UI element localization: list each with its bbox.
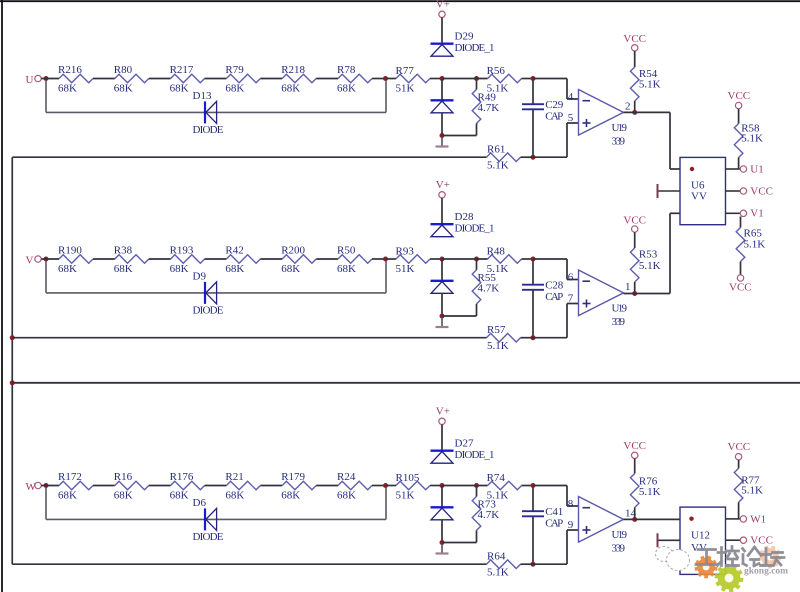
resistor R61 — [487, 153, 521, 162]
wire — [41, 258, 59, 260]
svg-text:R80: R80 — [114, 64, 133, 76]
IC U12 — [680, 507, 726, 574]
watermark red-orange scribble — [759, 546, 782, 569]
svg-text:68K: 68K — [170, 489, 189, 501]
svg-text:4.7K: 4.7K — [478, 102, 500, 114]
svg-text:V1: V1 — [750, 208, 763, 220]
U6 pin V1 — [726, 212, 741, 214]
wire long horizontal net — [12, 382, 800, 384]
svg-text:VCC: VCC — [729, 282, 752, 294]
resistor R21 — [226, 481, 260, 490]
svg-text:5: 5 — [568, 112, 574, 124]
svg-text:68K: 68K — [114, 82, 133, 94]
terminal V+ — [439, 192, 445, 198]
svg-text:R176: R176 — [170, 471, 194, 483]
svg-text:R218: R218 — [281, 64, 305, 76]
wire — [93, 258, 115, 260]
U6 left-middle pin with bar symbol — [658, 190, 681, 192]
svg-text:4.7K: 4.7K — [478, 282, 500, 294]
wire — [385, 261, 387, 293]
op-amp minus symbol — [583, 507, 591, 509]
wire — [566, 79, 568, 100]
wire — [430, 78, 442, 80]
wire — [442, 542, 477, 544]
svg-text:R78: R78 — [337, 64, 356, 76]
svg-text:DIODE: DIODE — [193, 305, 224, 317]
wire — [441, 294, 443, 317]
ground — [436, 136, 449, 147]
svg-text:5.1K: 5.1K — [487, 159, 509, 171]
svg-text:68K: 68K — [225, 82, 244, 94]
svg-text:VCC: VCC — [623, 33, 646, 45]
svg-text:51K: 51K — [396, 263, 415, 275]
U12 pin-1 marker dot — [689, 517, 693, 521]
svg-text:U19: U19 — [612, 122, 628, 134]
wire — [669, 112, 671, 169]
svg-text:U19: U19 — [612, 529, 628, 541]
terminal VCC — [737, 275, 743, 281]
resistor R55 — [472, 270, 481, 304]
U6 pin-1 marker dot — [690, 167, 694, 171]
svg-text:68K: 68K — [170, 82, 189, 94]
svg-text:5.1K: 5.1K — [741, 132, 763, 144]
wire — [533, 485, 567, 487]
wire — [476, 261, 478, 270]
resistor R16 — [115, 481, 149, 490]
diode D28 — [431, 224, 454, 237]
wire — [532, 109, 534, 157]
svg-text:5.1K: 5.1K — [487, 566, 509, 578]
svg-text:VCC: VCC — [750, 185, 773, 197]
terminal V+ — [439, 418, 445, 424]
wire — [476, 488, 478, 497]
svg-text:D27: D27 — [455, 437, 474, 449]
resistor R24 — [338, 481, 372, 490]
svg-text:R42: R42 — [225, 245, 243, 257]
resistor R217 — [171, 74, 205, 83]
svg-text:U1: U1 — [750, 163, 763, 175]
resistor R57 — [487, 333, 521, 342]
terminal VCC — [740, 188, 746, 194]
wire — [566, 486, 568, 507]
node B — [474, 483, 479, 488]
wire — [738, 109, 740, 124]
wire — [567, 122, 579, 124]
resistor R80 — [115, 74, 149, 83]
wire — [430, 485, 442, 487]
resistor R105 — [396, 481, 430, 490]
wire — [624, 293, 671, 295]
wire — [532, 290, 534, 338]
wire — [533, 156, 567, 158]
svg-text:R193: R193 — [170, 245, 194, 257]
svg-text:D6: D6 — [193, 497, 207, 509]
wire — [430, 258, 442, 260]
diode D9 — [205, 282, 217, 304]
svg-text:gkong.com: gkong.com — [744, 567, 788, 577]
wire — [385, 81, 387, 113]
svg-text:5.1K: 5.1K — [487, 82, 509, 94]
wire — [634, 508, 636, 520]
wire — [386, 258, 397, 260]
svg-text:R74: R74 — [487, 472, 506, 484]
wire — [385, 488, 387, 520]
svg-text:R105: R105 — [396, 472, 420, 484]
wire — [316, 78, 338, 80]
wire — [12, 337, 486, 339]
wire — [12, 563, 486, 565]
wire — [634, 51, 636, 67]
resistor R176 — [171, 481, 205, 490]
terminal W1 — [740, 516, 746, 522]
ground — [436, 316, 449, 327]
svg-text:D13: D13 — [193, 90, 212, 102]
node C bottom — [531, 155, 536, 160]
resistor R190 — [59, 255, 93, 264]
diode D29 lower — [431, 100, 454, 113]
svg-text:4.7K: 4.7K — [478, 509, 500, 521]
wire — [372, 78, 386, 80]
wire — [566, 530, 568, 564]
svg-text:U: U — [26, 74, 34, 86]
svg-text:339: 339 — [612, 136, 626, 148]
svg-text:R190: R190 — [58, 245, 82, 257]
terminal VCC — [740, 537, 746, 543]
wire — [41, 485, 59, 487]
svg-text:R48: R48 — [487, 245, 506, 257]
svg-text:VCC: VCC — [728, 90, 751, 102]
IC U6 — [680, 157, 726, 224]
node chain end — [383, 257, 388, 262]
wire — [567, 505, 579, 507]
svg-text:68K: 68K — [114, 263, 133, 275]
svg-text:6: 6 — [568, 271, 574, 283]
node A — [440, 76, 445, 81]
resistor R93 — [396, 255, 430, 264]
svg-text:R53: R53 — [639, 249, 658, 261]
resistor R216 — [59, 74, 93, 83]
svg-text:R217: R217 — [170, 64, 194, 76]
wire — [260, 258, 282, 260]
watermark logo group — [656, 546, 789, 592]
wire — [386, 78, 397, 80]
resistor R48 — [488, 255, 522, 264]
terminal VCC — [632, 226, 638, 232]
resistor R172 — [59, 481, 93, 490]
op-amp plus symbol — [583, 119, 591, 127]
svg-text:W1: W1 — [750, 513, 766, 525]
junction op3 out — [632, 517, 637, 522]
wire — [316, 258, 338, 260]
svg-text:4: 4 — [568, 91, 574, 103]
svg-text:51K: 51K — [396, 83, 415, 95]
svg-text:C28: C28 — [545, 280, 564, 292]
svg-text:VV: VV — [691, 190, 707, 202]
U6 pin U1 — [726, 168, 741, 170]
wire — [93, 78, 115, 80]
svg-text:VV: VV — [691, 542, 707, 554]
terminal U — [35, 75, 41, 81]
wire — [669, 213, 671, 293]
svg-text:5.1K: 5.1K — [487, 263, 509, 275]
resistor R65 — [736, 228, 745, 262]
op-amp U19 row3 — [579, 497, 624, 543]
resistor R78 — [338, 74, 372, 83]
svg-text:68K: 68K — [58, 82, 77, 94]
svg-text:R56: R56 — [487, 65, 506, 77]
svg-text:68K: 68K — [281, 263, 300, 275]
op-amp U19 row1 — [579, 90, 624, 136]
wire — [476, 81, 478, 90]
resistor R79 — [226, 74, 260, 83]
svg-text:51K: 51K — [396, 490, 415, 502]
wire — [260, 78, 282, 80]
wire — [442, 485, 488, 487]
diode D27 lower — [431, 507, 454, 520]
wire — [738, 502, 740, 519]
resistor R64 — [487, 560, 521, 569]
capacitor C28 — [522, 285, 544, 290]
svg-text:7: 7 — [568, 293, 574, 305]
U12 pin W1 — [726, 518, 741, 520]
resistor R42 — [226, 255, 260, 264]
resistor R50 — [338, 255, 372, 264]
wire — [740, 262, 742, 275]
wire — [372, 485, 386, 487]
wire — [260, 485, 282, 487]
wire — [441, 79, 443, 101]
svg-text:339: 339 — [612, 543, 626, 555]
svg-text:68K: 68K — [337, 489, 356, 501]
wire — [738, 158, 740, 170]
svg-text:68K: 68K — [225, 263, 244, 275]
wire — [205, 258, 227, 260]
node C top — [531, 257, 536, 262]
wire — [149, 78, 171, 80]
svg-text:VCC: VCC — [623, 215, 646, 227]
svg-text:68K: 68K — [281, 82, 300, 94]
svg-text:5.1K: 5.1K — [487, 340, 509, 352]
svg-text:VCC: VCC — [623, 440, 646, 452]
node B — [474, 257, 479, 262]
wire — [532, 261, 534, 285]
resistor R77 — [734, 468, 743, 502]
wire — [566, 259, 568, 280]
op-amp plus symbol — [583, 526, 591, 534]
svg-text:R16: R16 — [114, 471, 133, 483]
wire — [522, 258, 533, 260]
resistor R74 — [488, 481, 522, 490]
wire — [442, 135, 477, 137]
wire — [93, 485, 115, 487]
svg-text:R21: R21 — [225, 471, 243, 483]
wire — [670, 212, 680, 214]
wire — [634, 232, 636, 248]
watermark orange gear — [695, 556, 718, 579]
svg-text:5.1K: 5.1K — [639, 78, 661, 90]
svg-text:R216: R216 — [58, 64, 82, 76]
wire — [476, 123, 478, 135]
svg-text:R200: R200 — [281, 245, 305, 257]
wire — [567, 303, 579, 305]
wire — [442, 258, 488, 260]
wire — [533, 563, 567, 565]
resistor R200 — [282, 255, 316, 264]
svg-text:68K: 68K — [337, 263, 356, 275]
node V input junction — [44, 257, 49, 262]
terminal VCC — [632, 452, 638, 458]
U6 pin VCC — [726, 190, 741, 192]
svg-text:V+: V+ — [436, 0, 450, 11]
svg-text:U19: U19 — [612, 303, 628, 315]
resistor R218 — [282, 74, 316, 83]
resistor R54 — [630, 67, 639, 101]
terminal U1 — [740, 166, 746, 172]
svg-text:V+: V+ — [436, 179, 450, 191]
diode D28 lower — [431, 281, 454, 294]
terminal VCC — [632, 45, 638, 51]
svg-text:DIODE_1: DIODE_1 — [455, 449, 495, 461]
wire — [441, 113, 443, 136]
resistor R76 — [630, 474, 639, 508]
svg-text:R77: R77 — [396, 65, 415, 77]
watermark green gear — [715, 564, 744, 592]
svg-text:VCC: VCC — [750, 535, 773, 547]
svg-text:9: 9 — [568, 519, 574, 531]
wire — [46, 518, 386, 520]
svg-text:5.1K: 5.1K — [639, 260, 661, 272]
resistor R58 — [734, 124, 743, 158]
wire — [567, 279, 579, 281]
wire — [521, 156, 534, 158]
wire — [316, 485, 338, 487]
wire — [45, 81, 47, 113]
wire — [441, 520, 443, 543]
wire — [149, 485, 171, 487]
wire — [522, 78, 533, 80]
node ground junction — [440, 133, 445, 138]
resistor R56 — [488, 74, 522, 83]
op-amp U19 row2 — [579, 270, 624, 316]
wire — [521, 337, 534, 339]
svg-text:CAP: CAP — [545, 518, 563, 530]
wire — [205, 485, 227, 487]
svg-text:C29: C29 — [545, 99, 564, 111]
node C top — [531, 76, 536, 81]
node U input junction — [44, 76, 49, 81]
svg-text:5.1K: 5.1K — [741, 484, 763, 496]
wire — [634, 101, 636, 112]
capacitor C29 — [522, 104, 544, 109]
svg-text:DIODE: DIODE — [193, 124, 224, 136]
node chain end — [383, 76, 388, 81]
resistor R49 — [472, 89, 481, 123]
svg-text:CAP: CAP — [545, 291, 563, 303]
resistor R77 — [396, 74, 430, 83]
svg-text:68K: 68K — [170, 263, 189, 275]
wire — [670, 168, 680, 170]
node C bottom — [531, 335, 536, 340]
svg-text:C41: C41 — [545, 506, 563, 518]
node C bottom — [531, 562, 536, 567]
svg-text:U12: U12 — [691, 530, 710, 542]
resistor R38 — [115, 255, 149, 264]
wire — [634, 459, 636, 474]
junction bus long wire — [10, 380, 15, 385]
svg-text:68K: 68K — [225, 489, 244, 501]
svg-text:R50: R50 — [337, 245, 356, 257]
wire — [46, 292, 386, 294]
terminal W — [35, 482, 41, 488]
svg-text:R24: R24 — [337, 471, 356, 483]
wire left bus vertical — [11, 157, 13, 564]
wire — [442, 315, 477, 317]
wire — [372, 258, 386, 260]
wire — [386, 485, 397, 487]
watermark text 工控论坛 — [696, 547, 784, 566]
wire — [533, 258, 567, 260]
node ground junction — [440, 540, 445, 545]
capacitor C41 — [522, 511, 544, 516]
sheet border left — [1, 0, 3, 592]
terminal V1 — [740, 210, 746, 216]
svg-text:68K: 68K — [281, 489, 300, 501]
U12 left-middle pin with bar symbol — [658, 539, 681, 541]
node ground junction — [440, 314, 445, 319]
svg-text:1: 1 — [625, 281, 631, 293]
resistor R193 — [171, 255, 205, 264]
diode D27 — [431, 451, 454, 464]
wire — [441, 486, 443, 508]
wire — [567, 529, 579, 531]
svg-text:DIODE_1: DIODE_1 — [455, 223, 495, 235]
svg-text:5.1K: 5.1K — [639, 486, 661, 498]
svg-text:5.1K: 5.1K — [744, 238, 766, 250]
svg-text:R93: R93 — [396, 245, 415, 257]
wire — [149, 258, 171, 260]
op-amp plus symbol — [583, 300, 591, 308]
node C top — [531, 483, 536, 488]
wire — [441, 425, 443, 451]
wire — [533, 337, 567, 339]
node A — [440, 483, 445, 488]
node W input junction — [44, 483, 49, 488]
svg-text:R179: R179 — [281, 471, 305, 483]
svg-text:D9: D9 — [193, 271, 207, 283]
wire — [567, 98, 579, 100]
wire — [738, 460, 740, 468]
svg-text:V+: V+ — [436, 406, 450, 418]
wire — [41, 78, 59, 80]
svg-text:CAP: CAP — [545, 111, 563, 123]
svg-text:68K: 68K — [337, 82, 356, 94]
junction op2 out — [632, 291, 637, 296]
svg-text:2: 2 — [625, 101, 631, 113]
svg-text:VCC: VCC — [728, 441, 751, 453]
svg-text:R57: R57 — [487, 324, 506, 336]
wire — [566, 123, 568, 157]
wire — [521, 563, 534, 565]
svg-text:D29: D29 — [455, 30, 474, 42]
svg-text:68K: 68K — [114, 489, 133, 501]
wire — [532, 81, 534, 105]
node A — [440, 257, 445, 262]
resistor R73 — [472, 496, 481, 530]
svg-text:D28: D28 — [455, 211, 474, 223]
wire — [634, 282, 636, 294]
wire — [532, 488, 534, 512]
resistor R53 — [630, 248, 639, 282]
